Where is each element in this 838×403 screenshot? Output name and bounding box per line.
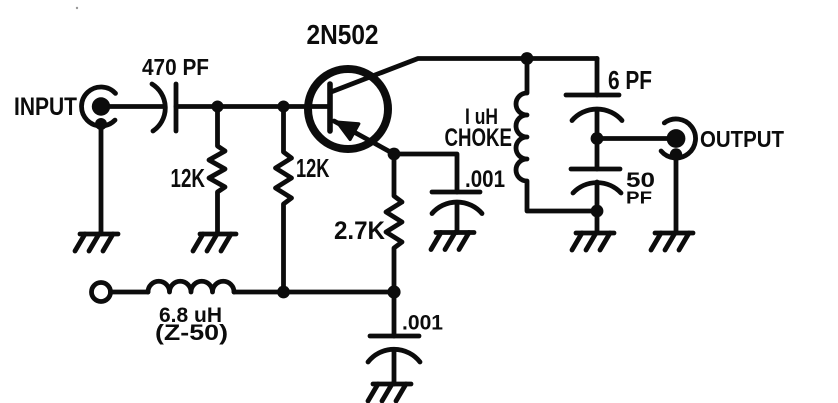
- svg-text:PF: PF: [626, 188, 652, 208]
- svg-text:6 PF: 6 PF: [608, 65, 652, 95]
- svg-text:12K: 12K: [296, 153, 330, 183]
- svg-text:INPUT: INPUT: [14, 93, 77, 121]
- svg-text:470 PF: 470 PF: [142, 54, 209, 80]
- svg-text:OUTPUT: OUTPUT: [700, 126, 785, 152]
- svg-text:.001: .001: [465, 166, 505, 193]
- svg-text:2N502: 2N502: [307, 19, 379, 50]
- svg-text:12K: 12K: [171, 163, 206, 193]
- svg-text:2.7K: 2.7K: [334, 217, 385, 245]
- svg-text:CHOKE: CHOKE: [445, 124, 513, 152]
- svg-text:.001: .001: [402, 311, 443, 335]
- svg-text:(Z-50): (Z-50): [155, 320, 228, 345]
